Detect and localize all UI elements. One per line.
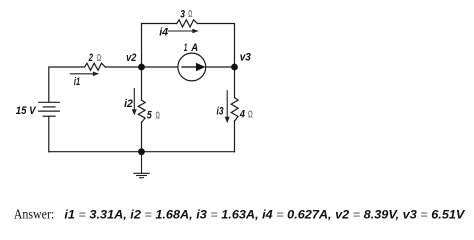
svg-text:2: 2	[88, 52, 93, 64]
svg-text:Ω: Ω	[188, 9, 192, 20]
svg-text:3: 3	[180, 9, 185, 21]
current source internal arrow	[181, 64, 204, 71]
resistor R 4-ohm zigzag	[231, 98, 238, 122]
wire 2-ohm resistor to node v2	[105, 66, 141, 68]
resistor R 2-ohm zigzag	[85, 63, 106, 70]
svg-text:15 V: 15 V	[16, 105, 37, 117]
svg-text:A: A	[190, 42, 198, 54]
arrow i1	[70, 72, 99, 77]
svg-text:5: 5	[147, 110, 153, 122]
node v2 junction dot	[138, 64, 145, 71]
wire v2 down to 5-ohm resistor	[141, 67, 143, 100]
resistor R 3-ohm zigzag	[177, 20, 198, 27]
svg-text:Ω: Ω	[156, 110, 160, 121]
wire 5-ohm resistor to bottom node	[141, 122, 143, 151]
arrow i3	[225, 90, 230, 123]
svg-text:i4: i4	[159, 27, 168, 39]
wire top-left corner to 2-ohm resistor	[49, 67, 85, 102]
wire v2 to current source	[142, 66, 178, 68]
arrow i2	[132, 88, 137, 115]
wire v3 down to 4-ohm resistor	[234, 67, 236, 98]
arrow i4	[168, 29, 199, 33]
svg-text:v2: v2	[126, 52, 136, 64]
ground junction dot	[138, 148, 145, 155]
svg-text:Answer:: Answer:	[14, 206, 55, 221]
wire current source to v3	[206, 66, 235, 68]
svg-text:i1: i1	[74, 76, 80, 88]
svg-text:i2: i2	[124, 98, 133, 110]
svg-text:i3: i3	[217, 105, 224, 117]
svg-text:v3: v3	[240, 52, 251, 64]
wire 3-ohm resistor to top-right corner down to v3	[197, 24, 234, 68]
wire 4-ohm resistor to bottom-right corner	[234, 121, 236, 152]
ground symbol	[134, 152, 149, 178]
current source I1 circle 1A	[178, 53, 206, 81]
bottom wire	[49, 151, 235, 153]
svg-text:4: 4	[239, 109, 245, 121]
svg-text:Ω: Ω	[248, 110, 253, 121]
svg-text:1: 1	[184, 42, 187, 54]
svg-text:i1 = 3.31A, i2 = 1.68A, i3 = 1: i1 = 3.31A, i2 = 1.68A, i3 = 1.63A, i4 =…	[64, 207, 465, 221]
wire top-left to 3-ohm resistor	[142, 23, 177, 25]
node v3 junction dot	[231, 64, 238, 71]
wire node v2 up to top loop	[141, 24, 143, 68]
battery V1 15V plates	[39, 102, 60, 116]
wire battery negative to bottom-left corner	[48, 116, 50, 152]
svg-text:Ω: Ω	[97, 53, 101, 64]
answer text	[14, 206, 465, 221]
resistor R 5-ohm zigzag	[138, 100, 145, 122]
